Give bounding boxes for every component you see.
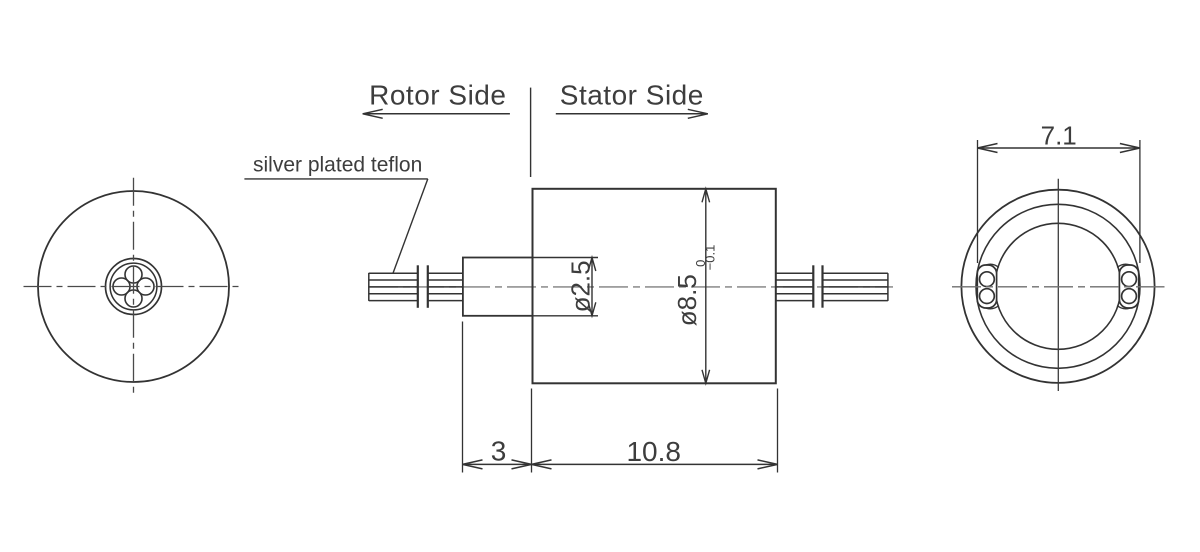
svg-text:Stator Side: Stator Side bbox=[560, 80, 704, 111]
svg-text:10.8: 10.8 bbox=[626, 436, 681, 467]
svg-text:ø8.5: ø8.5 bbox=[672, 274, 702, 326]
svg-text:silver plated teflon: silver plated teflon bbox=[253, 153, 422, 176]
svg-text:Rotor Side: Rotor Side bbox=[369, 80, 506, 111]
svg-text:7.1: 7.1 bbox=[1041, 121, 1077, 151]
svg-text:−0.1: −0.1 bbox=[703, 245, 718, 271]
svg-text:3: 3 bbox=[491, 436, 507, 467]
svg-text:ø2.5: ø2.5 bbox=[566, 260, 596, 312]
